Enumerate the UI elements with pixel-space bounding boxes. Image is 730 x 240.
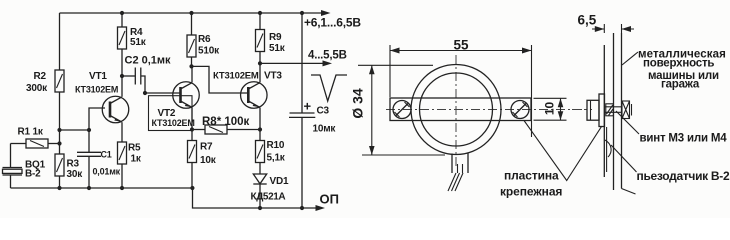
svg-text:крепежная: крепежная bbox=[500, 185, 562, 199]
svg-text:10: 10 bbox=[543, 102, 557, 116]
svg-text:поверхность: поверхность bbox=[643, 58, 714, 70]
svg-text:4...5,5В: 4...5,5В bbox=[308, 50, 347, 62]
svg-text:300к: 300к bbox=[26, 83, 48, 94]
svg-text:1к: 1к bbox=[131, 154, 142, 165]
svg-text:10к: 10к bbox=[200, 155, 217, 166]
svg-text:510к: 510к bbox=[198, 46, 220, 57]
svg-text:винт М3 или М4: винт М3 или М4 bbox=[640, 133, 728, 145]
svg-text:R8* 100к: R8* 100к bbox=[202, 116, 250, 128]
svg-text:КТ3102ЕМ: КТ3102ЕМ bbox=[75, 85, 118, 95]
svg-text:55: 55 bbox=[454, 38, 470, 53]
svg-text:С3: С3 bbox=[317, 106, 330, 117]
svg-text:пластина: пластина bbox=[504, 169, 559, 183]
svg-text:R6: R6 bbox=[198, 34, 211, 45]
svg-text:В-2: В-2 bbox=[25, 169, 41, 180]
svg-text:КТ3102ЕМ: КТ3102ЕМ bbox=[152, 118, 195, 128]
svg-text:6,5: 6,5 bbox=[578, 13, 597, 28]
svg-text:R5: R5 bbox=[128, 143, 141, 154]
svg-text:R7: R7 bbox=[200, 142, 213, 153]
svg-text:30к: 30к bbox=[67, 169, 84, 180]
svg-text:VT1: VT1 bbox=[89, 71, 107, 82]
svg-text:ОП: ОП bbox=[320, 192, 339, 207]
svg-text:VT3: VT3 bbox=[264, 71, 282, 82]
svg-text:VD1: VD1 bbox=[270, 176, 289, 187]
svg-text:R9: R9 bbox=[269, 32, 282, 43]
svg-text:51к: 51к bbox=[130, 37, 147, 48]
svg-text:R3: R3 bbox=[67, 159, 80, 170]
svg-text:КТ3102ЕМ: КТ3102ЕМ bbox=[213, 71, 259, 82]
svg-text:R10: R10 bbox=[267, 140, 285, 151]
svg-text:51к: 51к bbox=[269, 43, 286, 54]
svg-text:0,01мк: 0,01мк bbox=[93, 167, 121, 177]
svg-text:+6,1...6,5В: +6,1...6,5В bbox=[304, 16, 361, 30]
svg-text:R2: R2 bbox=[34, 71, 47, 82]
svg-text:Ø 34: Ø 34 bbox=[350, 88, 366, 119]
svg-text:R1 1к: R1 1к bbox=[18, 127, 44, 138]
svg-text:гаража: гаража bbox=[661, 79, 700, 91]
svg-text:С2 0,1мк: С2 0,1мк bbox=[125, 55, 172, 67]
svg-text:5,1к: 5,1к bbox=[267, 153, 286, 164]
svg-text:С1: С1 bbox=[101, 150, 112, 160]
svg-text:+: + bbox=[304, 99, 312, 114]
svg-text:КД521А: КД521А bbox=[251, 192, 286, 203]
svg-text:10мк: 10мк bbox=[313, 124, 337, 135]
svg-text:пьезодатчик В-2: пьезодатчик В-2 bbox=[637, 169, 730, 183]
